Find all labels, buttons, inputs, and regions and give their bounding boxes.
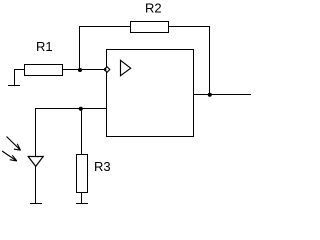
resistor R2 xyxy=(131,22,169,33)
wire R1 right lead to op-amp inverting input xyxy=(63,69,105,71)
wire top feedback to R2 xyxy=(79,26,130,28)
wire photodiode anode lead xyxy=(35,108,37,156)
node B output junction dot xyxy=(208,93,212,97)
resistor R1 xyxy=(25,65,63,76)
ground under R3 xyxy=(76,203,88,205)
wire R3 top lead xyxy=(81,108,83,154)
wire feedback down to output node xyxy=(209,26,211,95)
ground under photodiode xyxy=(30,203,42,205)
wire op-amp output xyxy=(194,94,251,96)
node A junction dot xyxy=(78,68,82,72)
photodiode D1 triangle xyxy=(28,157,43,167)
light arrow 1 xyxy=(7,137,21,151)
node C junction dot xyxy=(79,107,83,111)
ground left of R1 xyxy=(8,69,20,86)
svg-text:R3: R3 xyxy=(94,159,111,174)
wire feedback branch up xyxy=(79,26,81,70)
pin marker diamond on inverting input xyxy=(104,67,110,73)
wire R1 left lead xyxy=(14,69,24,71)
wire lower input net xyxy=(35,108,106,110)
svg-text:R1: R1 xyxy=(36,39,53,54)
op-amp U1 body xyxy=(107,50,194,137)
op-amp buffer triangle xyxy=(121,60,131,75)
svg-text:R2: R2 xyxy=(145,1,162,16)
light arrow 2 xyxy=(2,151,17,161)
wire R2 right lead xyxy=(169,26,210,28)
wire end blob at inverting input pin xyxy=(104,68,106,70)
resistor R3 xyxy=(77,155,88,193)
wire R3 bottom lead xyxy=(81,193,83,203)
wire photodiode cathode lead xyxy=(35,166,37,203)
